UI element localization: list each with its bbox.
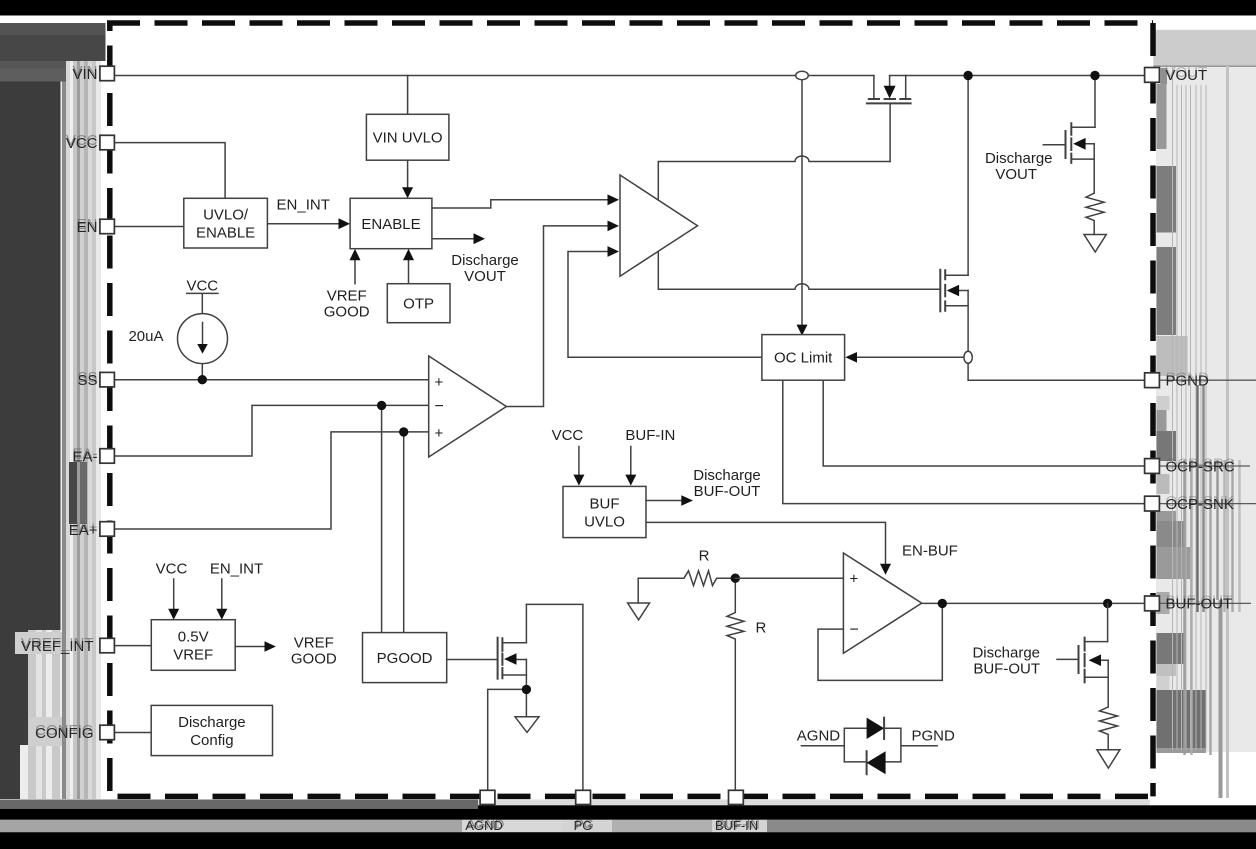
pin SS xyxy=(100,372,115,387)
wire VIN tap to OC Limit xyxy=(801,80,803,325)
pin labels left xyxy=(21,66,98,742)
svg-text:PG: PG xyxy=(574,818,593,833)
svg-text:Discharge: Discharge xyxy=(178,714,246,731)
wire comparator top gate drive xyxy=(658,156,890,199)
svg-text:UVLO/: UVLO/ xyxy=(203,207,249,224)
wire buffer feedback xyxy=(818,603,942,680)
pin VREF_INT xyxy=(100,638,115,653)
svg-text:VCC: VCC xyxy=(552,427,584,444)
pin BUF-IN xyxy=(729,790,744,804)
bottom overlay bars xyxy=(0,800,1256,849)
node oval VIN tap xyxy=(796,71,809,79)
box 0.5V VREF U7 xyxy=(114,560,337,670)
pin AGND xyxy=(480,790,495,804)
wire OCP-SNK extension xyxy=(1160,503,1256,505)
svg-text:−: − xyxy=(435,398,444,415)
svg-text:VREF: VREF xyxy=(327,287,367,304)
svg-text:OC Limit: OC Limit xyxy=(774,350,833,367)
svg-text:EN: EN xyxy=(77,219,98,236)
box Discharge Config U8 xyxy=(114,705,273,755)
svg-text:VOUT: VOUT xyxy=(995,166,1037,183)
svg-text:BUF-IN: BUF-IN xyxy=(715,818,758,833)
box VIN UVLO U2 xyxy=(366,114,449,160)
wire VCC supply bar to current source xyxy=(187,293,218,314)
pin PGND xyxy=(1145,373,1160,388)
svg-text:BUF-OUT: BUF-OUT xyxy=(694,483,761,500)
svg-text:VIN UVLO: VIN UVLO xyxy=(373,130,443,147)
wire EA+ to error amp xyxy=(114,432,429,529)
wire ENABLE out to comparator input1 xyxy=(432,200,608,208)
box PGOOD U6 xyxy=(363,633,447,683)
pin labels left (ghost smear copies) xyxy=(21,63,98,739)
svg-text:ENABLE: ENABLE xyxy=(361,216,420,233)
pin OCP-SNK xyxy=(1145,496,1160,511)
svg-text:R: R xyxy=(755,619,766,636)
wire VCC to UVLO/ENABLE xyxy=(114,143,225,199)
wire BUF-OUT extension xyxy=(1160,602,1252,604)
pin EN xyxy=(100,219,115,234)
svg-text:AGND: AGND xyxy=(797,728,841,745)
svg-text:CONFIG: CONFIG xyxy=(35,725,93,742)
wire VIN rail xyxy=(114,75,1145,77)
wire OCP-SRC extension xyxy=(1160,465,1251,467)
wire current source to SS xyxy=(201,363,203,379)
svg-text:VCC: VCC xyxy=(186,277,218,294)
transistor M3 discharge VOUT FET xyxy=(1043,123,1104,234)
pin EA+ xyxy=(100,522,115,537)
svg-text:VCC: VCC xyxy=(156,560,188,577)
wire buffer output to BUF-OUT xyxy=(922,602,1145,604)
svg-text:BUF: BUF xyxy=(590,495,620,512)
svg-text:ENABLE: ENABLE xyxy=(196,225,255,242)
wire EN to UVLO/ENABLE xyxy=(114,226,184,228)
svg-text:VREF: VREF xyxy=(173,647,213,664)
ground (R1 left) xyxy=(628,603,650,620)
ground (under M4 resistor) xyxy=(1097,750,1120,768)
wire EA- to error amp xyxy=(114,405,429,456)
pin labels right (ghost smear copies) xyxy=(1166,64,1235,610)
box OTP U4 xyxy=(387,284,450,323)
svg-text:VREF_INT: VREF_INT xyxy=(21,638,94,655)
svg-text:0.5V: 0.5V xyxy=(178,629,209,646)
box OC Limit U5 xyxy=(762,335,845,381)
wire OTP arrow xyxy=(408,260,410,284)
svg-text:PGND: PGND xyxy=(912,728,956,745)
comparator big driver A2 xyxy=(620,175,698,276)
svg-text:EA-: EA- xyxy=(72,448,97,465)
svg-text:EN_INT: EN_INT xyxy=(277,196,330,213)
svg-text:GOOD: GOOD xyxy=(324,304,370,321)
pin EA- xyxy=(100,449,115,464)
svg-text:EN_INT: EN_INT xyxy=(210,560,263,577)
svg-text:UVLO: UVLO xyxy=(584,513,625,530)
LEFT-SIDEBAR xyxy=(0,23,106,799)
op-amp buffer A3 xyxy=(843,553,921,653)
wire PGND extension xyxy=(1160,379,1256,381)
pin OCP-SRC xyxy=(1145,459,1160,474)
svg-text:VCC: VCC xyxy=(66,135,98,152)
svg-text:Discharge: Discharge xyxy=(972,644,1040,661)
svg-text:Discharge: Discharge xyxy=(985,150,1053,167)
wire EN_INT UVLO/ENABLE to ENABLE xyxy=(267,223,338,225)
wire VOUT to discharge M3 xyxy=(1094,76,1096,128)
pin VOUT xyxy=(1145,68,1160,83)
wire ENABLE discharge out xyxy=(432,238,474,240)
svg-text:Discharge: Discharge xyxy=(693,467,761,484)
svg-text:SS: SS xyxy=(77,372,97,389)
op-amp error amplifier A1 xyxy=(429,356,507,457)
svg-text:OTP: OTP xyxy=(403,296,434,313)
wire VIN UVLO to ENABLE arrow xyxy=(407,160,409,187)
svg-text:+: + xyxy=(850,571,859,588)
svg-text:VREF: VREF xyxy=(294,635,334,652)
pin CONFIG xyxy=(100,725,115,740)
svg-text:EN-BUF: EN-BUF xyxy=(902,543,958,560)
svg-text:PGND: PGND xyxy=(1166,373,1210,390)
wire SS to error amp xyxy=(114,379,429,381)
wire R node to buffer + xyxy=(735,577,843,579)
wire OC Limit to OCP-SRC xyxy=(823,380,1144,466)
svg-text:20uA: 20uA xyxy=(128,328,163,345)
svg-text:OCP-SRC: OCP-SRC xyxy=(1166,458,1235,475)
transistor M2 low-side FET xyxy=(940,270,968,312)
pin VCC xyxy=(100,135,115,150)
svg-text:−: − xyxy=(850,622,859,639)
wire OC Limit sense xyxy=(857,356,964,358)
svg-text:+: + xyxy=(435,374,444,391)
svg-text:BUF-OUT: BUF-OUT xyxy=(973,660,1040,677)
RIGHT-SIDEBAR xyxy=(1153,30,1256,798)
wire OC Limit to OCP-SNK xyxy=(783,380,1145,503)
pin BUF-OUT xyxy=(1145,596,1160,611)
svg-text:+: + xyxy=(435,425,444,442)
svg-text:PGOOD: PGOOD xyxy=(377,650,433,667)
wire error amp out to comparator input2 xyxy=(506,226,607,407)
bottom pin labels xyxy=(467,817,760,832)
pin VIN xyxy=(100,66,115,81)
svg-text:GOOD: GOOD xyxy=(291,651,337,668)
svg-text:VIN: VIN xyxy=(72,66,97,83)
wire EA- node to PGOOD xyxy=(381,405,383,632)
svg-text:BUF-IN: BUF-IN xyxy=(625,427,675,444)
resistor R2 (vertical) xyxy=(727,578,744,790)
pin labels right xyxy=(1166,67,1235,613)
current source I1 20uA xyxy=(128,277,227,363)
arrowheads xyxy=(339,187,858,362)
wire M2 source down to PGND xyxy=(968,291,1145,381)
svg-text:EA+: EA+ xyxy=(69,522,98,539)
IC boundary dashed border xyxy=(107,23,1153,796)
wire VIN to VIN UVLO xyxy=(407,76,409,115)
svg-text:R: R xyxy=(699,548,710,565)
ground (under M3 resistor) xyxy=(1084,235,1106,253)
svg-text:BUF-OUT: BUF-OUT xyxy=(1166,596,1233,613)
transistor M1 top pass FET xyxy=(867,76,911,162)
resistor R1 (horizontal) xyxy=(638,571,735,603)
svg-text:Config: Config xyxy=(190,732,233,749)
transistor M5 PGOOD FET xyxy=(447,604,583,790)
box BUF UVLO U9 xyxy=(552,427,958,575)
diode pair D1/D2 AGND-PGND xyxy=(797,718,955,775)
box UVLO/ENABLE U1 xyxy=(184,198,268,248)
svg-text:OCP-SNK: OCP-SNK xyxy=(1166,496,1234,513)
top letterbox bar xyxy=(0,0,1256,16)
wire comparator bottom gate drive xyxy=(658,253,940,290)
wire OC Limit out to comparator input3 xyxy=(568,252,762,358)
node oval OC sense tap xyxy=(964,351,972,363)
transistor M4 discharge BUF-OUT FET xyxy=(1057,603,1118,749)
box ENABLE U3 xyxy=(350,198,432,248)
wire VOUT branch down to M2 xyxy=(967,76,969,276)
svg-text:AGND: AGND xyxy=(465,818,503,833)
wire EA+ node to PGOOD xyxy=(403,432,405,633)
svg-text:VOUT: VOUT xyxy=(464,268,506,285)
pin squares left xyxy=(100,66,1160,740)
pin PG xyxy=(576,790,591,804)
svg-text:Discharge: Discharge xyxy=(451,252,519,269)
svg-text:VOUT: VOUT xyxy=(1166,67,1208,84)
ground (PGOOD source) xyxy=(515,717,539,733)
wire VREF GOOD arrow xyxy=(354,260,356,284)
